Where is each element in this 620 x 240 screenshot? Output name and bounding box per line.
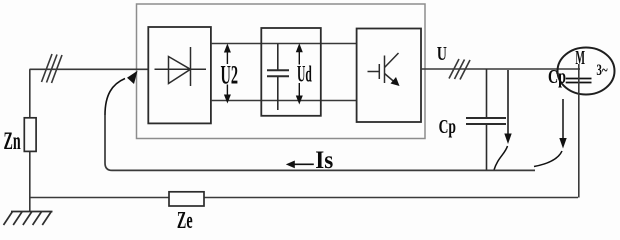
- IGBT emitter arrowhead: [391, 77, 400, 86]
- dc-link capacitor: [267, 44, 289, 111]
- wire: dc bus top: [211, 43, 357, 45]
- svg-text:Ze: Ze: [177, 208, 193, 232]
- current arrow through cable capacitance: [494, 70, 508, 170]
- rectifier diode symbol: [155, 47, 207, 86]
- resistor Zn: [24, 118, 36, 152]
- svg-text:Cp: Cp: [548, 66, 566, 88]
- ground (left earth symbol): [4, 212, 53, 226]
- svg-text:U2: U2: [221, 60, 239, 89]
- svg-text:Cp: Cp: [439, 116, 456, 138]
- wire: bottom ground bus: [30, 197, 578, 199]
- wire: mains input to rectifier: [30, 68, 149, 70]
- converter enclosure box: [137, 4, 426, 139]
- motor M: [558, 48, 615, 95]
- svg-text:U: U: [437, 44, 447, 65]
- wire: motor frame to ground bus: [578, 64, 580, 198]
- curved arrow into rectifier input: [105, 79, 125, 116]
- three-phase slash marks (output): [449, 59, 470, 80]
- wire: left vertical drop: [29, 69, 31, 211]
- svg-text:M: M: [575, 48, 585, 69]
- wire: common-mode return (Is path): [105, 115, 535, 170]
- current annotation Is arrow: [293, 163, 314, 165]
- svg-text:Is: Is: [315, 147, 333, 174]
- motor winding-to-frame capacitance Cp: [566, 79, 592, 83]
- inverter IGBT symbol: [368, 53, 399, 83]
- svg-text:Ud: Ud: [297, 61, 312, 86]
- svg-text:Zn: Zn: [4, 128, 21, 155]
- wire: inverter output to motor: [421, 68, 580, 70]
- rectifier block: [148, 27, 211, 123]
- three-phase slash marks (input): [42, 54, 63, 83]
- voltage arrow Ud: [296, 43, 303, 104]
- current arrow through motor capacitance: [534, 99, 563, 167]
- inverter block: [357, 29, 421, 123]
- resistor Ze: [169, 192, 204, 206]
- svg-text:3~: 3~: [596, 62, 608, 79]
- wire: dc bus bottom: [211, 100, 357, 102]
- voltage arrow U2: [224, 44, 231, 104]
- parasitic capacitance Cp (cable-to-ground): [466, 69, 506, 170]
- dc-link block: [261, 28, 321, 116]
